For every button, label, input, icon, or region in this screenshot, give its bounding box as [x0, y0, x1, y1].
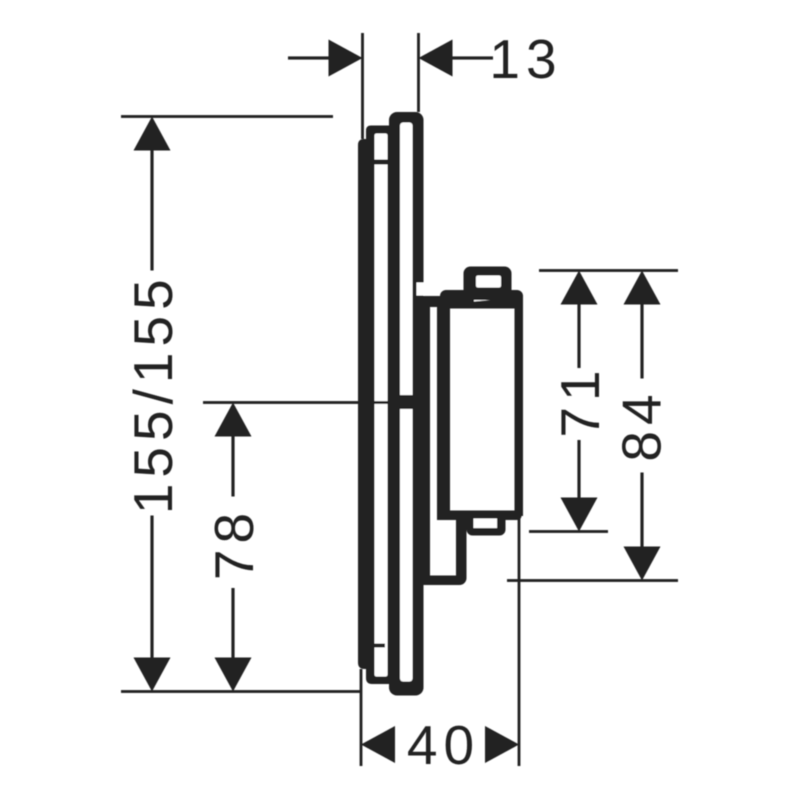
dim 40 arrow right: [485, 726, 519, 763]
ext line 40 right: [518, 516, 521, 766]
front plate mid bridge: [399, 395, 413, 409]
dim 84 line lower: [640, 473, 643, 548]
knob: [464, 267, 512, 301]
front plate: [389, 112, 424, 696]
ext line 71 bottom: [529, 530, 608, 533]
dim 84 arrow down: [624, 547, 661, 581]
dim 71 arrow up: [561, 271, 598, 305]
ext line 71/84 top: [539, 269, 678, 272]
ext line 84 bottom: [507, 579, 678, 582]
dim 71 line upper: [577, 304, 580, 369]
dim 84 line upper: [640, 304, 643, 379]
ext line 40 left: [360, 669, 363, 766]
ext line 78 mid: [203, 401, 391, 404]
knob white window: [476, 276, 501, 288]
svg-text:155/155: 155/155: [122, 273, 184, 514]
flange white sliver: [474, 296, 510, 302]
rear column: [423, 296, 430, 585]
dim 155 line lower: [150, 516, 153, 658]
svg-text:71: 71: [549, 364, 611, 437]
L pipe: [419, 518, 467, 585]
plate stroke notch (white): [417, 283, 424, 296]
body flange: [440, 290, 523, 309]
neck: [423, 296, 441, 307]
svg-text:40: 40: [407, 714, 480, 776]
svg-text:84: 84: [611, 388, 673, 461]
body left wall: [437, 300, 450, 520]
body bottom band: [437, 511, 522, 521]
svg-text:78: 78: [203, 507, 265, 580]
step white window: [474, 519, 498, 529]
front plate white interior: [400, 123, 413, 682]
middle plate: [366, 126, 391, 685]
ext line 155 top: [121, 115, 333, 118]
dim 71 arrow down: [561, 498, 598, 532]
ext line 13 left: [361, 33, 364, 139]
bottom step: [467, 514, 506, 536]
dim 78 line upper: [231, 436, 234, 497]
ext line bottom 155/78: [121, 690, 360, 693]
back plate bar: [358, 139, 373, 669]
dim 40 arrow left: [361, 726, 395, 763]
dim 84 arrow up: [624, 271, 661, 305]
dim 13 arrow right: [419, 40, 453, 77]
dim 78 arrow down: [215, 658, 252, 692]
dim 71 line lower: [577, 440, 580, 499]
body right wall: [515, 295, 524, 516]
dim 155 arrow down: [134, 658, 171, 692]
dim 13 line right: [451, 56, 494, 59]
dim 155 line upper: [150, 150, 153, 271]
middle plate lower band: [366, 644, 385, 648]
middle plate upper band: [368, 160, 389, 165]
dim 78 arrow up: [215, 403, 252, 437]
ext line 13 right: [417, 33, 420, 112]
svg-text:13: 13: [489, 28, 562, 90]
middle plate white channel: [375, 134, 388, 677]
dim 155 arrow up: [134, 117, 171, 151]
dim 78 line lower: [231, 588, 234, 658]
dim 13 line left: [288, 56, 330, 59]
dim 13 arrow left: [329, 40, 363, 77]
